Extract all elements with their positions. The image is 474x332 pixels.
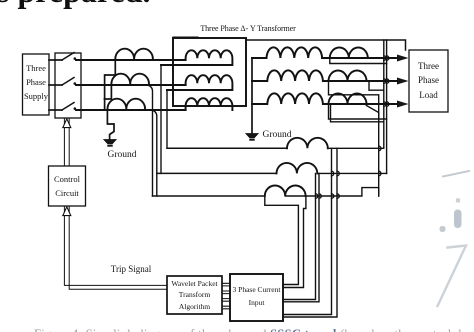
connectors wavelet to input box (222, 283, 230, 309)
control circuit label (48, 173, 86, 201)
coil A3 (108, 99, 146, 110)
series coil D1 (330, 48, 368, 59)
faint watermark stroke 1 (443, 171, 469, 177)
circuit breaker box (55, 53, 81, 118)
CT2 coil (277, 163, 318, 173)
delta T1 return drop (160, 65, 162, 173)
load line B (323, 80, 397, 82)
wire phase A supply->breaker (49, 59, 62, 61)
CT2 line to right riser (317, 172, 386, 174)
delta winding T3 (186, 98, 233, 110)
wye winding C3 (252, 93, 323, 104)
wye winding C2 (252, 70, 323, 81)
D3 under-return (329, 104, 387, 119)
breaker switch A (62, 53, 74, 61)
wire phase B breaker->transformer (76, 84, 186, 86)
faint watermark seven (438, 246, 467, 307)
ground label left (104, 148, 140, 163)
hop bumps on risers (379, 56, 389, 176)
series coil D3 (329, 94, 367, 105)
CT1 secondary lead 2 (283, 148, 337, 317)
arrowhead load A (397, 55, 409, 62)
riser V386.6 (386, 40, 388, 173)
wire coil A2 tap to ground bus (105, 85, 112, 99)
CT1 secondary lead 1 (283, 148, 332, 314)
transformer label leader (173, 36, 198, 38)
CT3 tail (285, 188, 379, 196)
arrowhead load B (397, 78, 409, 85)
control circuit box (49, 166, 86, 206)
left bus tap from phase C down to CT3 feed (rounded elbow) (151, 110, 157, 196)
CT2 secondary lead 2 (283, 173, 319, 301)
wavelet label (167, 278, 222, 312)
wire phase C supply->breaker (49, 109, 62, 111)
CT3 coil (265, 186, 306, 196)
wye winding C1 (252, 47, 322, 58)
transformer label (197, 23, 299, 35)
wire phase B supply->breaker (49, 84, 62, 86)
CT1 line to right riser (328, 147, 384, 149)
top clipped sentence "s prepared." (0, 0, 151, 10)
ground right symbol (246, 134, 258, 138)
D2 under-return (329, 81, 379, 196)
wire coil A3 tap to ground bus (105, 99, 114, 140)
supply label (23, 62, 49, 103)
load label (409, 59, 448, 102)
arrowhead into control circuit (63, 207, 71, 216)
wire phase A breaker->transformer (76, 59, 186, 61)
arrowhead into breaker (63, 119, 71, 128)
CT2 secondary lead 1 (283, 173, 316, 299)
riser V383.8 (383, 40, 385, 148)
top link line box to load (246, 40, 406, 50)
load line C (323, 103, 397, 105)
wavelet box (167, 276, 222, 314)
ground label right (261, 128, 293, 143)
D3 diagonal tap (366, 106, 378, 120)
CT3 secondary lead 1 (265, 196, 299, 285)
faint watermark square dot (456, 198, 460, 202)
CT2 feed line (157, 172, 277, 174)
coil A1 (line reactor phase A) (115, 49, 153, 60)
D1 under-return (330, 58, 387, 64)
arrowhead load C (397, 101, 409, 108)
coil A2 (111, 74, 149, 85)
3 phase current input box (230, 274, 283, 321)
CT3 secondary lead 2 (283, 196, 306, 288)
three phase supply box (23, 54, 50, 115)
trip signal label (108, 263, 154, 277)
wire phase C breaker->transformer (76, 109, 186, 111)
delta T2 return drop (166, 90, 168, 148)
delta winding T2 (167, 75, 232, 90)
bottom clipped caption (34, 327, 474, 332)
three phase load box (409, 50, 448, 112)
wire coil A1 tap to ground bus (105, 60, 116, 99)
input label (230, 284, 283, 310)
trip line breaker to control circuit (double line with up arrow) (64, 118, 69, 166)
CT1 coil (287, 138, 328, 149)
CT3 feed line (153, 195, 265, 197)
load line A (322, 57, 397, 59)
ground left symbol (104, 140, 116, 144)
hop bumps on CT lead verticals (316, 171, 340, 198)
faint watermark i bar (454, 210, 462, 229)
trip signal line from wavelet box to control circuit (64, 207, 167, 290)
breaker switch B (62, 78, 74, 86)
delta winding T1 (161, 50, 232, 65)
CT1 feed line (167, 147, 287, 149)
transformer box (173, 38, 246, 106)
left bus tap from phase B down to CT3 feed (rounded elbow) (147, 85, 153, 196)
series coil D2 (329, 71, 367, 82)
faint watermark i dot (440, 226, 446, 232)
breaker switch C (62, 103, 74, 111)
wye star bus to ground (251, 58, 253, 134)
